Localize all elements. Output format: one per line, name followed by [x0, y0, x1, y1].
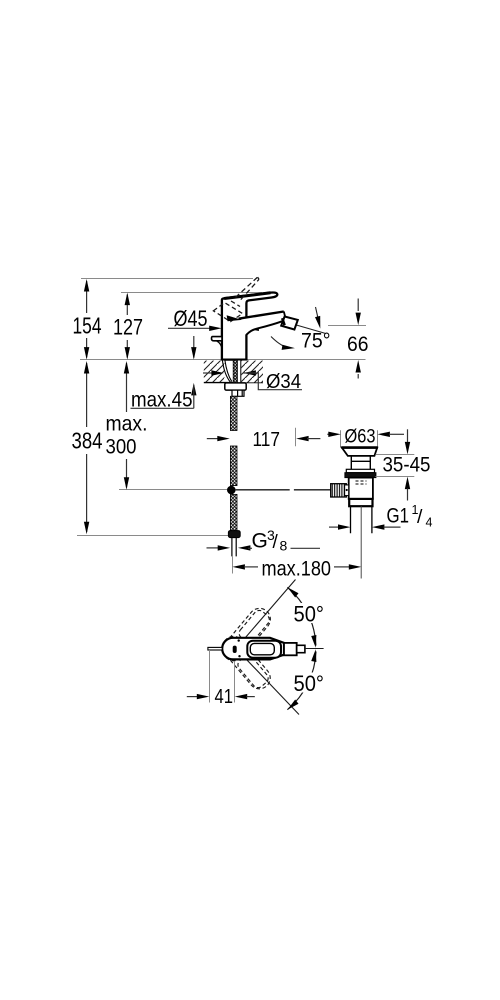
dashed handle rotated up 50	[219, 604, 275, 665]
flexible hose middle segment	[230, 446, 237, 486]
drain tailpipe	[351, 506, 372, 533]
dimension 66	[328, 299, 366, 379]
svg-text:/: /	[273, 532, 279, 553]
extension line top (154 upper reference)	[81, 278, 253, 280]
dimension G1 1/4	[329, 524, 401, 529]
dimension 384	[84, 361, 89, 534]
svg-text:max.180: max.180	[262, 557, 332, 581]
spout nose top view	[284, 643, 297, 655]
dashed handle rotated down 50	[218, 632, 274, 693]
svg-text:G: G	[252, 529, 268, 552]
50 degree label top	[291, 602, 326, 627]
svg-text:50°: 50°	[294, 671, 325, 696]
pop-up rod knob	[212, 337, 223, 341]
dimension max.180	[232, 564, 361, 569]
svg-text:G1: G1	[387, 504, 410, 528]
svg-text:8: 8	[280, 538, 288, 554]
drain collar	[349, 499, 372, 506]
svg-text:117: 117	[253, 428, 281, 451]
50 degree label bottom	[291, 671, 326, 696]
pop-up rod horizontal	[236, 489, 331, 491]
svg-text:154: 154	[73, 313, 102, 339]
svg-text:35-45: 35-45	[383, 453, 431, 477]
G3/8 nipple	[232, 538, 236, 557]
aerator (mousseur)	[281, 317, 298, 330]
swing arc upper	[287, 587, 316, 645]
faucet centerline lower extension	[232, 556, 234, 573]
svg-text:max.45: max.45	[131, 389, 193, 412]
gap wedge under handle	[227, 315, 242, 321]
dimension Ø34 leader (moved)	[203, 370, 302, 389]
pop-up knob top view	[208, 647, 222, 650]
countertop hatched section left	[204, 361, 263, 383]
extension line 127 upper reference	[121, 292, 262, 294]
dimension 41	[187, 650, 255, 703]
spout	[244, 318, 248, 333]
svg-text:75°: 75°	[301, 330, 331, 353]
dimension max.45	[131, 336, 197, 408]
svg-text:127: 127	[113, 315, 143, 340]
countertop hatched section right	[241, 361, 263, 383]
G3/8 connector nut	[228, 531, 240, 538]
mounting nut	[232, 390, 244, 396]
extension line max.300 lower reference	[119, 489, 227, 491]
handle dashed up-position (spike)	[236, 277, 260, 300]
svg-text:384: 384	[72, 428, 103, 454]
rod knurled knob	[331, 484, 347, 497]
hoses curving through hole	[222, 360, 231, 382]
svg-text:41: 41	[215, 685, 234, 708]
smooth shank tube	[237, 360, 241, 394]
drain neck	[351, 456, 370, 469]
faucet top view body	[222, 638, 284, 660]
pivot dots	[238, 639, 240, 641]
Ø63 extension lines	[341, 430, 378, 447]
svg-text:Ø63: Ø63	[345, 426, 376, 448]
dimension 35-45	[376, 429, 415, 500]
swing arc lower	[287, 652, 316, 710]
flexible hose lower segment	[230, 494, 237, 530]
dimension max.300	[124, 361, 129, 490]
flexible hose upper segment	[230, 396, 237, 430]
handle top edge emphasis	[224, 293, 270, 299]
drain seal flange	[346, 469, 374, 472]
cartridge slot	[233, 646, 237, 653]
dimension 154	[84, 279, 89, 360]
svg-text:/: /	[417, 506, 423, 528]
svg-text:Ø34: Ø34	[266, 370, 301, 393]
handle dashed down-position (rotated square)	[213, 301, 242, 322]
svg-text:300: 300	[106, 435, 137, 459]
dimension Ø45 leader	[168, 326, 259, 331]
dimension Ø63	[327, 432, 404, 437]
dimension 117	[207, 428, 321, 447]
drain centerline	[360, 506, 362, 578]
swing diagonal lower	[236, 649, 299, 715]
extension line bottom of hose (384 lower reference)	[77, 535, 229, 537]
svg-text:max.: max.	[106, 413, 148, 436]
lever top view	[247, 641, 281, 658]
centerline from nose	[305, 648, 324, 650]
svg-text:4: 4	[426, 516, 433, 530]
drain body	[349, 478, 373, 499]
dimension 75 degrees	[271, 307, 325, 350]
dimension 127	[125, 293, 130, 360]
dimension G3/8	[207, 545, 321, 550]
pop-up rod junction	[227, 486, 236, 495]
svg-text:Ø45: Ø45	[174, 306, 208, 331]
drain plug cap	[342, 448, 377, 456]
mounting washer	[225, 383, 246, 390]
svg-text:66: 66	[347, 332, 369, 356]
countertop surface line	[80, 359, 366, 361]
threaded shank	[233, 360, 237, 396]
swing diagonal upper	[236, 580, 296, 649]
knob connector	[345, 485, 349, 496]
arc arrowheads	[287, 587, 298, 597]
faucet body and handle combined	[222, 292, 277, 359]
svg-text:50°: 50°	[294, 602, 325, 627]
